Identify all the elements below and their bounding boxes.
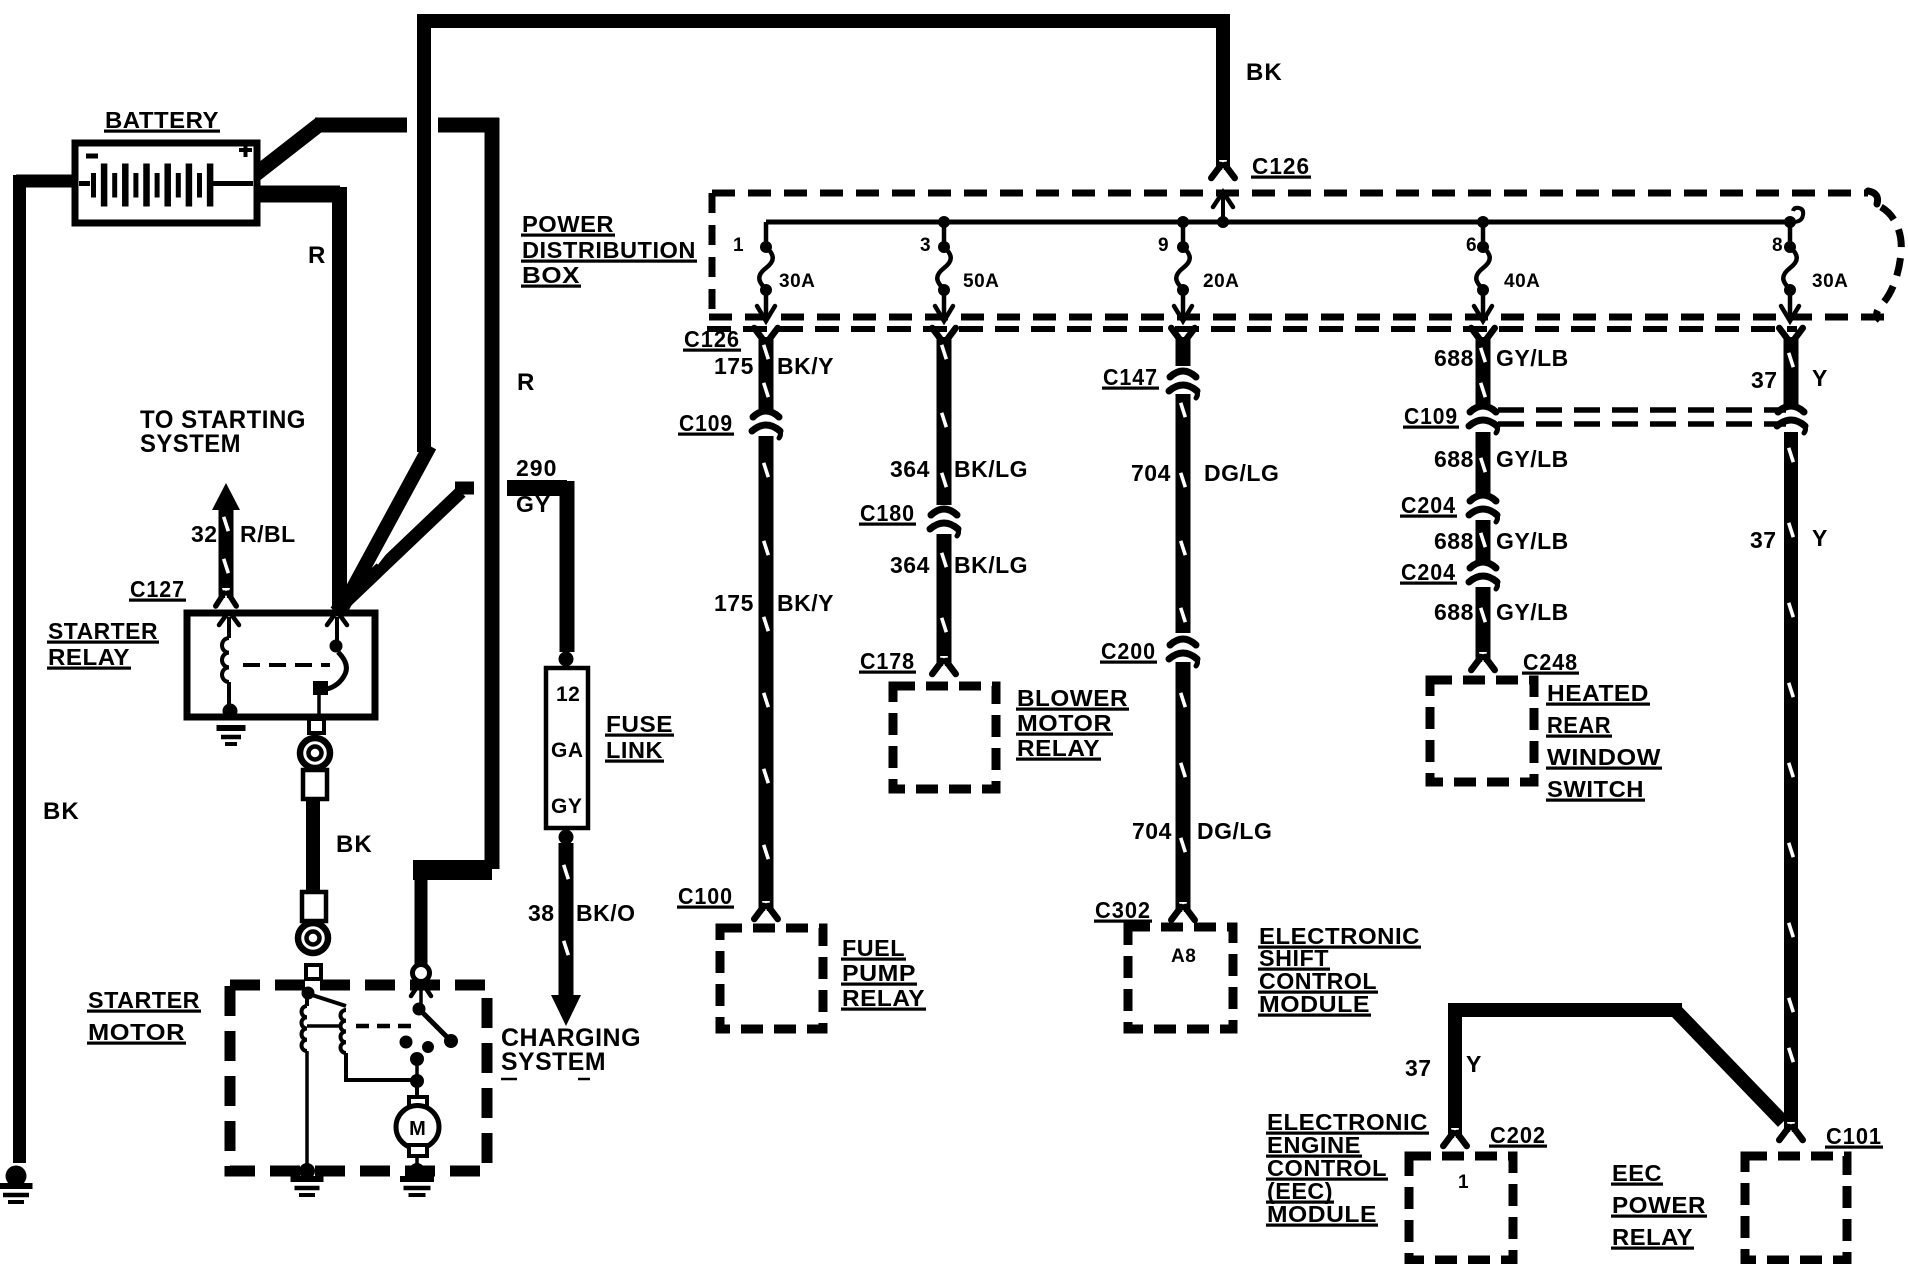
svg-text:MODULE: MODULE — [1259, 991, 1370, 1017]
connector C126 (dashed line under box) — [707, 326, 1797, 332]
svg-text:C109: C109 — [679, 410, 733, 436]
svg-text:C126: C126 — [684, 326, 740, 352]
svg-text:RELAY: RELAY — [1017, 735, 1100, 761]
blower motor relay box (dashed) — [893, 686, 996, 789]
svg-text:C202: C202 — [1490, 1122, 1546, 1148]
svg-text:MOTOR: MOTOR — [1017, 710, 1112, 736]
wire: 32 R/BL arrow up to starting system — [212, 483, 240, 606]
svg-text:3: 3 — [920, 235, 931, 256]
svg-text:FUSE: FUSE — [606, 711, 673, 737]
svg-text:38: 38 — [528, 900, 555, 926]
connector C109 (dashed pass-through line, right) — [1498, 410, 1786, 424]
svg-text:688: 688 — [1434, 599, 1474, 625]
fuse F1 30A — [733, 222, 815, 321]
svg-text:C302: C302 — [1095, 897, 1151, 923]
wire: BK drop from top feed to starter relay (left vertical) — [417, 14, 431, 452]
svg-text:C248: C248 — [1523, 649, 1578, 675]
label: BK (starter relay to starter motor) — [336, 831, 373, 858]
svg-text:1: 1 — [733, 235, 744, 256]
svg-text:Y: Y — [1812, 525, 1828, 551]
starter motor pull-in coil — [302, 987, 315, 1167]
label: C109 (right) — [1403, 403, 1459, 429]
wire: 175 BK/Y from fuse 1 to fuel pump relay — [754, 328, 778, 919]
svg-text:BATTERY: BATTERY — [105, 107, 219, 133]
svg-text:6: 6 — [1466, 235, 1477, 256]
label: 364 BK/LG (lower) — [890, 552, 1028, 578]
label: STARTER RELAY — [47, 618, 159, 670]
starter relay internal dashed link — [243, 663, 330, 667]
svg-text:MOTOR: MOTOR — [88, 1019, 185, 1045]
starter motor internal dashed link — [356, 1024, 412, 1029]
svg-text:C178: C178 — [860, 648, 915, 674]
label: FUSE LINK — [605, 711, 674, 763]
wire: battery hot feed BK, top horizontal run — [417, 14, 1230, 28]
connector C147 (in-line, wire 704) — [1169, 371, 1198, 398]
label: C147 — [1102, 364, 1159, 390]
svg-text:LINK: LINK — [606, 737, 663, 763]
label: TO STARTING SYSTEM — [140, 406, 306, 458]
svg-text:BOX: BOX — [522, 262, 580, 288]
bus wire inside power distribution box — [766, 208, 1803, 228]
svg-text:C204: C204 — [1401, 559, 1456, 585]
label: 688 GY/LB (4) — [1434, 599, 1569, 625]
svg-text:C200: C200 — [1101, 638, 1156, 664]
svg-text:BK: BK — [43, 798, 80, 825]
label: C204 (upper) — [1400, 492, 1457, 518]
fuel pump relay box (dashed) — [720, 928, 823, 1029]
fuse F6 40A — [1466, 222, 1540, 321]
svg-text:688: 688 — [1434, 446, 1474, 472]
label: 364 BK/LG (upper) — [890, 456, 1028, 482]
wire: 704 DG/LG from fuse 9 to C302 — [1171, 328, 1195, 920]
svg-text:704: 704 — [1132, 818, 1172, 844]
svg-text:MODULE: MODULE — [1267, 1201, 1377, 1227]
label: ELECTRONIC ENGINE CONTROL (EEC) MODULE — [1266, 1109, 1429, 1227]
label: ELECTRONIC SHIFT CONTROL MODULE — [1258, 923, 1421, 1017]
wire: 290 GY horizontal to fuse link drop — [507, 481, 567, 652]
label: 290 — [516, 455, 557, 481]
fuse F8 30A — [1772, 222, 1848, 321]
label: BK (top feed) — [1246, 59, 1283, 86]
wire: 688 GY/LB from fuse 6 to C248 — [1471, 328, 1495, 670]
wire: battery positive to starter relay (R) — [258, 187, 340, 607]
svg-text:688: 688 — [1434, 528, 1474, 554]
svg-text:20A: 20A — [1203, 271, 1239, 292]
svg-text:GY/LB: GY/LB — [1496, 446, 1569, 472]
svg-text:SWITCH: SWITCH — [1547, 776, 1644, 802]
svg-text:STARTER: STARTER — [88, 987, 200, 1013]
svg-text:30A: 30A — [1812, 271, 1848, 292]
label: C248 — [1522, 649, 1579, 675]
svg-text:GY/LB: GY/LB — [1496, 528, 1569, 554]
svg-text:364: 364 — [890, 456, 930, 482]
svg-text:BK/LG: BK/LG — [954, 456, 1028, 482]
starter relay coil ground — [217, 704, 246, 745]
fuse F3 50A — [920, 222, 999, 321]
ground G2 (starter motor coils) — [291, 1163, 324, 1195]
svg-text:REAR: REAR — [1547, 712, 1611, 738]
connector C204 (lower in-line, wire 688) — [1469, 562, 1498, 589]
svg-text:RELAY: RELAY — [1612, 1224, 1693, 1250]
connector C109 (in-line, wire 37) — [1777, 406, 1806, 433]
svg-text:R: R — [308, 242, 326, 269]
wire: battery positive diagonal up to top-right feed — [256, 124, 320, 174]
svg-text:RELAY: RELAY — [48, 644, 130, 670]
svg-text:30A: 30A — [779, 271, 815, 292]
svg-text:R/BL: R/BL — [240, 521, 296, 547]
svg-text:BK: BK — [1246, 59, 1283, 86]
label: C127 — [129, 576, 186, 602]
label: C109 (wire 175) — [678, 410, 734, 436]
label: 32 R/BL — [191, 521, 296, 547]
label: 37 Y (upper) — [1751, 365, 1828, 393]
label: C200 — [1100, 638, 1157, 664]
label: 37 Y (middle) — [1750, 525, 1828, 553]
terminal lug chain from starter relay to starter motor (BK) — [298, 719, 330, 979]
label: GY (290 circuit) — [516, 491, 551, 517]
svg-text:FUEL: FUEL — [842, 935, 905, 961]
wire: 364 BK/LG from fuse 3 to blower motor relay — [932, 328, 956, 674]
svg-text:WINDOW: WINDOW — [1547, 744, 1661, 770]
wire: 37 Y between EEC module C202 and EEC power relay C101 — [1443, 1010, 1783, 1146]
svg-text:GY/LB: GY/LB — [1496, 345, 1569, 371]
label: STARTER MOTOR — [87, 987, 201, 1045]
connector C204 (upper in-line, wire 688) — [1469, 495, 1498, 522]
label: C126 (under box) — [683, 326, 741, 352]
connector C200 (in-line, wire 704) — [1169, 639, 1198, 666]
label: 704 DG/LG (lower) — [1132, 818, 1272, 844]
wire: 38 BK/O arrow to charging system — [551, 843, 581, 1026]
svg-text:C204: C204 — [1401, 492, 1456, 518]
svg-text:175: 175 — [714, 590, 754, 616]
connector C109 (in-line, wire 688) — [1469, 406, 1498, 433]
svg-text:DG/LG: DG/LG — [1204, 460, 1279, 486]
label: R (battery to starter relay) — [308, 242, 326, 269]
svg-text:C109: C109 — [1404, 403, 1458, 429]
wire: BK drop to power distribution box C126 — [1211, 14, 1235, 178]
svg-text:BLOWER: BLOWER — [1017, 685, 1128, 711]
svg-text:R: R — [517, 369, 535, 396]
svg-text:BK/Y: BK/Y — [777, 590, 834, 616]
svg-text:EEC: EEC — [1612, 1160, 1662, 1186]
label: C180 — [859, 500, 916, 526]
label: BLOWER MOTOR RELAY — [1016, 685, 1129, 761]
wire: battery negative to left margin and down to ground — [16, 175, 79, 1163]
starter motor box (dashed) — [230, 985, 487, 1171]
heated rear window switch box (dashed) — [1430, 680, 1534, 782]
battery B1 — [75, 143, 257, 223]
starter motor solenoid switch — [400, 965, 459, 1098]
electronic shift control module box (dashed) with pin A8 — [1128, 927, 1233, 1029]
connector C180 (in-line, wire 364) — [930, 509, 959, 536]
svg-text:DG/LG: DG/LG — [1197, 818, 1272, 844]
label: C204 (lower) — [1400, 559, 1457, 585]
svg-text:290: 290 — [516, 455, 557, 481]
node: C126 entry arrow into box — [1213, 192, 1233, 224]
label: C126 (top) — [1251, 153, 1311, 179]
svg-text:BK/O: BK/O — [576, 900, 636, 926]
svg-text:A8: A8 — [1171, 946, 1196, 967]
svg-text:37: 37 — [1750, 527, 1777, 553]
connector C109 (in-line, wire 175) — [752, 411, 781, 438]
svg-text:GA: GA — [551, 739, 584, 762]
svg-text:C126: C126 — [1252, 153, 1310, 179]
svg-text:GY/LB: GY/LB — [1496, 599, 1569, 625]
label: R (vertical feed to charging system) — [517, 369, 535, 396]
svg-text:GY: GY — [516, 491, 551, 517]
svg-text:37: 37 — [1751, 367, 1778, 393]
svg-text:704: 704 — [1131, 460, 1171, 486]
svg-text:364: 364 — [890, 552, 930, 578]
label: POWER DISTRIBUTION BOX — [521, 211, 697, 288]
label: 688 GY/LB (2) — [1434, 446, 1569, 472]
label: C178 — [859, 648, 916, 674]
svg-text:RELAY: RELAY — [842, 985, 925, 1011]
label: 38 BK/O — [528, 900, 636, 926]
svg-text:SYSTEM: SYSTEM — [140, 430, 241, 458]
label: 175 BK/Y (upper) — [714, 353, 834, 379]
label: 37 Y (bottom) — [1405, 1051, 1482, 1081]
label: C302 — [1094, 897, 1152, 923]
label: 688 GY/LB (1) — [1434, 345, 1569, 371]
svg-text:C127: C127 — [130, 576, 185, 602]
label: 688 GY/LB (3) — [1434, 528, 1569, 554]
wire: elbow to starter motor switch stud — [413, 861, 492, 964]
ground G1 (battery negative) — [0, 1166, 33, 1203]
wire: BK diagonal into starter relay battery terminal — [341, 446, 430, 610]
wire: R feed horizontal (right of crossover) and corner down — [438, 118, 499, 869]
svg-text:37: 37 — [1405, 1055, 1432, 1081]
svg-text:8: 8 — [1772, 235, 1783, 256]
label: C202 — [1489, 1122, 1547, 1148]
wire: 37 Y from fuse 8 to C101 — [1779, 328, 1803, 1140]
svg-text:HEATED: HEATED — [1547, 680, 1649, 706]
svg-text:SYSTEM: SYSTEM — [501, 1048, 606, 1076]
wire: diagonal from starter relay terminal toward fuse link — [335, 488, 474, 612]
svg-text:1: 1 — [1458, 1172, 1469, 1193]
label: 704 DG/LG (upper) — [1131, 460, 1279, 486]
svg-text:40A: 40A — [1504, 271, 1540, 292]
starter relay coil — [219, 614, 239, 708]
label: CHARGING SYSTEM — [501, 1024, 641, 1079]
svg-text:GY: GY — [551, 795, 582, 818]
svg-text:9: 9 — [1158, 235, 1169, 256]
svg-text:Y: Y — [1812, 365, 1828, 391]
starter relay box — [187, 613, 375, 717]
label: HEATED REAR WINDOW SWITCH — [1546, 680, 1662, 802]
svg-text:C147: C147 — [1103, 364, 1158, 390]
svg-text:C180: C180 — [860, 500, 915, 526]
fuse link (12 GA GY) — [546, 652, 588, 845]
svg-text:POWER: POWER — [1612, 1192, 1706, 1218]
svg-text:688: 688 — [1434, 345, 1474, 371]
starter motor hold-in coil — [307, 995, 412, 1080]
EEC power relay box C101 (dashed) — [1745, 1156, 1847, 1260]
svg-text:BK: BK — [336, 831, 373, 858]
svg-text:32: 32 — [191, 521, 218, 547]
label: FUEL PUMP RELAY — [841, 935, 926, 1011]
fuse F9 20A — [1158, 222, 1239, 321]
svg-text:BK/Y: BK/Y — [777, 353, 834, 379]
svg-text:C101: C101 — [1826, 1123, 1882, 1149]
starter relay switch — [313, 614, 347, 716]
label: 175 BK/Y (lower) — [714, 590, 834, 616]
starter motor M — [396, 1097, 439, 1166]
svg-text:50A: 50A — [963, 271, 999, 292]
label: BATTERY — [104, 107, 220, 133]
svg-text:DISTRIBUTION: DISTRIBUTION — [522, 237, 696, 263]
svg-text:Y: Y — [1466, 1051, 1482, 1077]
label: C101 — [1825, 1123, 1883, 1149]
ground G3 (starter motor) — [400, 1163, 434, 1195]
svg-text:STARTER: STARTER — [48, 618, 158, 644]
svg-text:BK/LG: BK/LG — [954, 552, 1028, 578]
svg-text:C100: C100 — [678, 883, 733, 909]
svg-text:POWER: POWER — [522, 211, 614, 237]
svg-text:175: 175 — [714, 353, 754, 379]
svg-text:PUMP: PUMP — [842, 960, 916, 986]
wire: R feed horizontal (left of crossover) — [315, 118, 407, 133]
label: C100 — [677, 883, 734, 909]
label: BK (battery negative wire) — [43, 798, 80, 825]
power distribution box (dashed outline with torn right edge) — [709, 191, 1901, 320]
svg-text:12: 12 — [556, 683, 580, 706]
EEC module connector box C202 (dashed) with pin 1 — [1409, 1156, 1513, 1260]
svg-text:M: M — [409, 1118, 426, 1140]
label: EEC POWER RELAY — [1611, 1160, 1707, 1250]
